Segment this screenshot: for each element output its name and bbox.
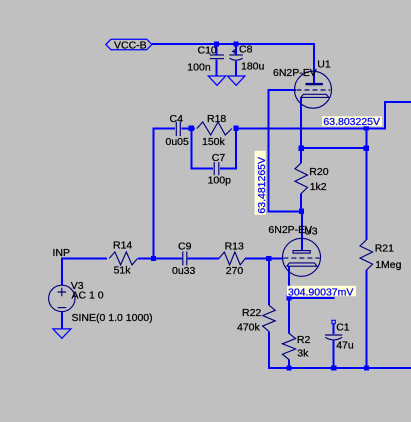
node junction R13/R22/U3 grid xyxy=(266,256,271,261)
capacitor C10 xyxy=(187,44,224,73)
svg-text:63.481265V: 63.481265V xyxy=(256,157,268,214)
wire V3 bottom lead to ground xyxy=(61,312,63,329)
svg-text:3k: 3k xyxy=(297,348,309,360)
node junction R21 bottom rail xyxy=(364,365,369,370)
voltage source V3 xyxy=(49,280,153,324)
svg-text:C9: C9 xyxy=(178,240,192,252)
wire dead-end stub at cathode node xyxy=(288,297,335,299)
svg-text:0u05: 0u05 xyxy=(166,136,190,148)
svg-text:100p: 100p xyxy=(208,175,232,187)
node junction row2 left xyxy=(299,146,304,151)
node junction C4/R18 left xyxy=(189,126,194,131)
resistor R2 xyxy=(282,333,310,359)
wire C10 top lead xyxy=(216,44,218,54)
wire U1 grid horizontal xyxy=(269,89,296,91)
node junction R2 bottom rail xyxy=(286,365,291,370)
wire step out right edge xyxy=(384,101,411,103)
node junction C10 top xyxy=(214,41,219,46)
svg-text:C10: C10 xyxy=(198,44,217,56)
svg-text:VCC-B: VCC-B xyxy=(114,39,147,51)
node junction R18/C7 right xyxy=(234,126,239,131)
wire top rail VCC-B xyxy=(152,43,314,45)
ground under C10 xyxy=(208,76,225,85)
svg-text:R20: R20 xyxy=(309,166,328,178)
wire R22 bottom lead xyxy=(268,331,270,368)
wire R18 right to step corner xyxy=(235,128,385,130)
node junction R20 bottom / U3 plate xyxy=(299,209,304,214)
svg-text:270: 270 xyxy=(226,265,244,277)
svg-text:C8: C8 xyxy=(239,43,253,55)
node junction R14/C9/branch xyxy=(151,256,156,261)
node junction 63.8V net xyxy=(364,125,369,130)
wire U1 grid column down xyxy=(268,89,270,211)
wire R20 bottom xyxy=(300,194,302,212)
svg-text:1k2: 1k2 xyxy=(310,181,327,193)
resistor R14 xyxy=(109,239,137,276)
wire step vertical xyxy=(384,102,386,130)
svg-text:100n: 100n xyxy=(187,61,211,73)
svg-text:R18: R18 xyxy=(207,113,226,125)
wire left branch horizontal into C4 xyxy=(152,128,175,130)
svg-text:SINE(0 1.0 1000): SINE(0 1.0 1000) xyxy=(72,312,153,324)
svg-text:R21: R21 xyxy=(375,242,394,254)
wire C1 top lead xyxy=(333,324,335,334)
wire node A horizontal to U3 plate xyxy=(268,210,302,212)
wire C10 bottom lead xyxy=(216,59,218,76)
svg-text:AC 1 0: AC 1 0 xyxy=(72,289,104,301)
resistor R18 xyxy=(197,113,232,148)
wire left branch vertical xyxy=(152,128,154,259)
svg-text:R22: R22 xyxy=(242,307,261,319)
wire row2 cathode to R21 column xyxy=(301,147,366,149)
node voltage label 63.481265V rotated xyxy=(255,151,268,215)
svg-text:63.803225V: 63.803225V xyxy=(323,116,380,128)
svg-text:47u: 47u xyxy=(336,340,354,352)
resistor R20 xyxy=(295,163,329,194)
svg-text:304.90037mV: 304.90037mV xyxy=(288,286,353,298)
node voltage label 63.803225V xyxy=(322,116,382,128)
flag VCC-B xyxy=(106,39,152,51)
resistor R22 xyxy=(237,305,275,333)
wire R13 to U3 grid xyxy=(245,257,283,259)
ground under C8 xyxy=(228,76,245,85)
svg-text:R13: R13 xyxy=(225,240,244,252)
wire bottom rail xyxy=(268,367,411,369)
node voltage label 304.90037mV xyxy=(287,286,356,299)
node junction C8 top xyxy=(234,41,239,46)
capacitor C9 xyxy=(172,240,196,277)
wire U1 plate lead xyxy=(313,43,315,83)
svg-text:R14: R14 xyxy=(113,239,132,251)
svg-text:180u: 180u xyxy=(241,61,265,73)
wire R21 bottom vertical xyxy=(365,270,367,368)
wire C8 top lead xyxy=(235,44,237,54)
resistor R13 xyxy=(219,240,245,277)
wire C8 bottom lead xyxy=(235,61,237,77)
wire R21 top vertical xyxy=(365,129,367,240)
svg-text:6N2P-EV: 6N2P-EV xyxy=(273,67,317,79)
node junction row2 right xyxy=(364,146,369,151)
wire U1 cathode down to R20 xyxy=(300,97,302,162)
svg-text:470k: 470k xyxy=(237,321,261,333)
wire C7 branch left horizontal xyxy=(190,168,213,170)
node junction C1 bottom rail xyxy=(331,365,336,370)
op triode U1 6N2P-EV xyxy=(273,59,332,109)
wire C7 branch right horizontal xyxy=(220,168,237,170)
wire INP row xyxy=(62,257,107,259)
wire C9 to R13 xyxy=(188,257,219,259)
wire U3 plate lead xyxy=(301,210,303,250)
svg-text:U3: U3 xyxy=(304,226,318,238)
svg-text:1Meg: 1Meg xyxy=(375,259,401,271)
capacitor C4 xyxy=(166,113,190,148)
triode U3 6N2P-EV xyxy=(268,224,320,276)
wire C1 bottom lead xyxy=(333,341,335,369)
svg-text:INP: INP xyxy=(53,247,71,259)
wire C7 branch right vertical xyxy=(235,130,237,170)
capacitor C8 polarized xyxy=(229,43,264,72)
svg-text:C4: C4 xyxy=(170,113,184,125)
svg-text:51k: 51k xyxy=(114,265,132,277)
wire C7 branch left vertical xyxy=(190,129,192,169)
capacitor C1 polarized xyxy=(325,320,354,351)
wire U3 cathode down to R2 xyxy=(288,266,290,333)
svg-text:R2: R2 xyxy=(297,334,311,346)
svg-text:150k: 150k xyxy=(202,136,226,148)
svg-text:C1: C1 xyxy=(336,321,350,333)
wire R22 top lead xyxy=(268,257,270,305)
wire C4 to R18 xyxy=(182,128,196,130)
resistor R21 xyxy=(360,240,402,271)
wire R14 to C9 xyxy=(138,257,182,259)
svg-text:0u33: 0u33 xyxy=(172,265,196,277)
svg-text:C7: C7 xyxy=(212,152,226,164)
ground under V3 xyxy=(53,329,71,338)
svg-text:U1: U1 xyxy=(317,59,331,71)
wire V3 top lead xyxy=(61,257,63,285)
wire R2 bottom xyxy=(288,360,290,369)
capacitor C7 xyxy=(208,152,232,187)
node junction U3 cathode xyxy=(286,295,291,300)
